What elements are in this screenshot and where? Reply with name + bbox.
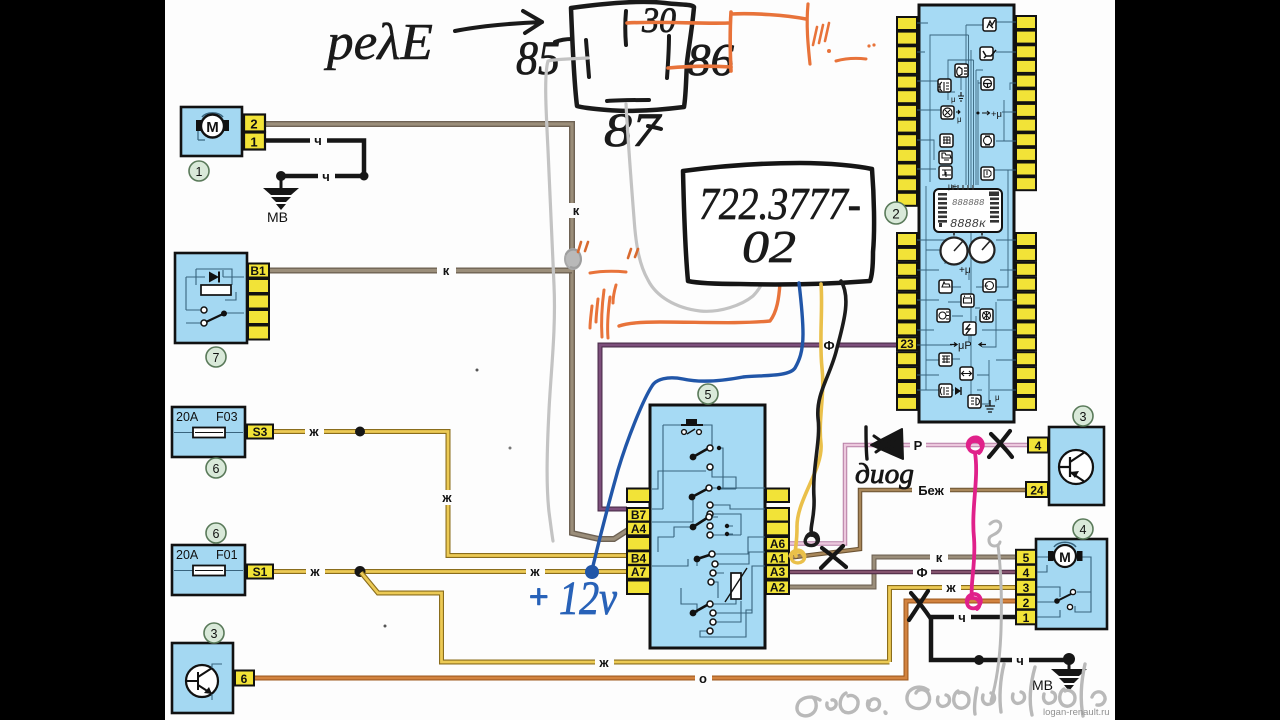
comp2 internal bus lines — [917, 22, 1016, 404]
comp5 contact group 4 — [697, 555, 711, 560]
svg-text:1: 1 — [196, 165, 203, 179]
junction dot on S3 wire — [355, 427, 365, 437]
svg-text:реλЕ: реλЕ — [323, 14, 433, 71]
svg-text:ж: ж — [308, 424, 319, 439]
comp2 muP arrows — [950, 343, 986, 347]
junction dot on S1 wire — [355, 566, 366, 577]
svg-text:Ф: Ф — [916, 565, 927, 580]
svg-text:S1: S1 — [253, 565, 268, 579]
svg-text:ж: ж — [945, 580, 956, 595]
svg-text:μ: μ — [951, 95, 956, 104]
svg-text:30: 30 — [641, 0, 676, 40]
svg-text:A6: A6 — [770, 537, 786, 551]
label circle 1 — [189, 161, 209, 181]
svg-text:F03: F03 — [216, 410, 238, 424]
svg-text:ч: ч — [322, 169, 330, 184]
svg-text:1: 1 — [1023, 611, 1030, 625]
label circle 7 — [206, 347, 226, 367]
component 3: transistor unit bottom left — [172, 643, 233, 713]
svg-text:μР: μР — [958, 340, 972, 352]
wire: yellow from F03 S3 to comp5 B4 — [273, 432, 627, 556]
svg-text:4: 4 — [1080, 523, 1087, 537]
component 7: relay unit connector — [175, 253, 247, 343]
hand orange quote ticks — [578, 242, 588, 252]
wire: purple violet wire comp5 B7 to comp2 pin 23 — [600, 345, 899, 509]
svg-text:24: 24 — [1030, 484, 1044, 498]
svg-text:86: 86 — [687, 34, 734, 85]
comp2 pins — [897, 17, 917, 30]
hand gray line from relay 85 — [546, 58, 588, 541]
label zh on bottom yellow run — [595, 655, 614, 670]
svg-text:6: 6 — [213, 527, 220, 541]
hand orange line to box — [619, 283, 780, 326]
component 3: transistor unit right — [1049, 427, 1104, 505]
hand pink knot bottom — [967, 594, 981, 609]
wire: brown K wire from comp1 pin 2 down to A4 of comp5 — [265, 124, 628, 539]
label o on orange wire — [695, 671, 712, 685]
label P on pink wire — [910, 438, 926, 453]
junction dot on comp4 ground wire — [974, 655, 984, 665]
label K on vertical brown — [567, 203, 584, 218]
pin 1 of component 1 — [244, 133, 265, 150]
label circle 3 (bottom left) — [204, 623, 224, 643]
svg-text:logan-renault.ru: logan-renault.ru — [1043, 707, 1110, 718]
wire: yellow from F01 S1 to comp5 A7 — [273, 569, 627, 574]
component 5: steering column switch unit — [650, 405, 765, 648]
wire: black ground wire from component 1 pin 1 — [265, 141, 364, 177]
hand black X near comp3r pin4 — [989, 431, 1012, 457]
wire: brown K wire from comp7 pin B1 joining vertical — [268, 268, 572, 274]
hand orange wire from 30 — [627, 12, 806, 71]
component 4: motor unit right — [1036, 539, 1107, 629]
hand black knot at A6 — [805, 533, 818, 546]
hand relay box — [571, 2, 694, 111]
comp4 pins 5,4,3,2,1 — [1016, 550, 1036, 565]
svg-text:ч: ч — [1016, 653, 1024, 668]
svg-text:к: к — [573, 203, 580, 218]
pins 2-5 of component 7 — [248, 279, 269, 293]
hand blue wire from box to +12v junction — [592, 283, 803, 570]
label K on B1 wire — [437, 263, 456, 278]
comp2 icons top — [983, 18, 996, 31]
svg-text:02: 02 — [742, 221, 796, 272]
label F on purple wire — [820, 338, 838, 353]
speck dots — [476, 369, 479, 372]
svg-text:3: 3 — [1080, 410, 1087, 424]
hand black X on lower corner area — [909, 591, 931, 620]
component 1: washer pump motor connector — [181, 107, 242, 156]
hand box 722.3777-02 — [683, 163, 874, 284]
component 6: fuse F01 — [172, 545, 245, 595]
svg-text:к: к — [443, 263, 450, 278]
comp2 icons bottom — [939, 353, 952, 366]
label ch on comp1 wire — [310, 133, 327, 147]
svg-text:20A: 20A — [176, 548, 199, 562]
svg-text:1: 1 — [250, 135, 257, 150]
svg-text:3: 3 — [211, 627, 218, 641]
label circle 4 — [1073, 519, 1093, 539]
label circle 2 — [885, 202, 907, 224]
pin 2 of component 1 — [244, 115, 265, 132]
comp5 contact group 3 — [693, 518, 707, 527]
hand pink wire vertical — [972, 453, 977, 597]
svg-text:A3: A3 — [770, 565, 786, 579]
relay pin 87 tick — [607, 100, 649, 101]
pin 6 of comp3 bottom left — [235, 671, 254, 686]
node: blue junction dot on A7 wire (+12v) — [585, 565, 599, 579]
label circle 5 — [698, 384, 718, 404]
ground MB (component 4) — [1051, 659, 1087, 691]
comp2 gauge ticks — [953, 185, 973, 190]
svg-text:F01: F01 — [216, 548, 238, 562]
hand yellow knot at A1 — [790, 550, 805, 563]
svg-text:6: 6 — [241, 672, 248, 686]
svg-text:Беж: Беж — [918, 483, 944, 498]
comp2 internal ground — [985, 400, 995, 412]
comp5 contact group 2 — [692, 489, 707, 497]
comp2 gauge 1 — [941, 238, 968, 265]
label F on A3 wire — [913, 565, 931, 580]
hand yellow wire from box to A1 — [795, 284, 822, 556]
label circle 3 right — [1073, 406, 1093, 426]
wire: orange from comp3 pin 6 to comp4 pin 2 — [253, 601, 1016, 678]
hand black diode symbol on P wire — [866, 427, 867, 459]
svg-text:ж: ж — [441, 490, 452, 505]
svg-text:+μ: +μ — [991, 109, 1002, 120]
label zh near comp4 pin3 — [942, 580, 961, 595]
comp2 icons middle — [939, 280, 952, 293]
wire: yellow branch from S1 junction to comp4 pin 3 — [361, 573, 1016, 663]
svg-text:5: 5 — [1023, 551, 1030, 565]
svg-text:2: 2 — [250, 117, 257, 132]
wire: beige wire comp5 A1 to comp3r pin 24 — [787, 490, 1028, 558]
svg-text:3: 3 — [1023, 581, 1030, 595]
SECTION:WIRES2 — [172, 107, 273, 713]
wire: brown K wire comp5 A2 to comp4 pin 5 — [787, 557, 1016, 587]
svg-text:μ+: μ+ — [948, 182, 958, 191]
label zh on S1 wire — [306, 564, 325, 579]
comp5 right pin block — [766, 489, 789, 595]
svg-text:ч: ч — [314, 133, 322, 148]
label ch on comp4 ground run — [1012, 653, 1029, 667]
pin B1 of component 7 — [248, 264, 269, 278]
comp2 gauge 2 — [970, 238, 995, 263]
pin 24 of comp3 right — [1026, 482, 1048, 497]
relay pin 30 tick — [623, 11, 628, 45]
hand orange battery marks top right — [807, 4, 810, 64]
svg-text:Р: Р — [914, 438, 923, 453]
hand black wire from box to A6 — [811, 281, 846, 535]
svg-text:МВ: МВ — [1032, 677, 1053, 693]
svg-text:о: о — [699, 671, 707, 686]
svg-text:M: M — [1059, 549, 1071, 565]
svg-text:6: 6 — [213, 462, 220, 476]
svg-text:87: 87 — [604, 104, 662, 157]
hand gray blob knot on brown wire — [565, 249, 581, 269]
svg-text:μ: μ — [957, 115, 962, 124]
svg-text:20A: 20A — [176, 410, 199, 424]
node: ground attach dot comp1 — [276, 171, 286, 181]
svg-text:7: 7 — [213, 351, 220, 365]
svg-text:A2: A2 — [770, 581, 786, 595]
svg-text:Ф: Ф — [823, 338, 834, 353]
left letterbox bar — [0, 0, 165, 720]
component 6: fuse F03 — [172, 407, 245, 457]
comp5 contact group 5 — [693, 605, 708, 614]
comp5 internal thin wiring — [652, 425, 765, 637]
svg-text:2: 2 — [1023, 596, 1030, 610]
label circle 6 (F01) — [206, 523, 226, 543]
svg-text:ж: ж — [309, 564, 320, 579]
SECTION:COMPEND — [323, 0, 1105, 716]
svg-text:B7: B7 — [631, 508, 647, 522]
label zh on S3 wire — [305, 424, 324, 439]
hand gray writing bottom — [797, 664, 1105, 716]
pin S1 — [247, 565, 273, 579]
relay pin 85 tick — [555, 39, 589, 77]
svg-text:диоg: диоg — [855, 459, 914, 490]
svg-text:888888: 888888 — [952, 198, 985, 208]
svg-text:2: 2 — [892, 207, 900, 222]
svg-text:A7: A7 — [631, 565, 647, 579]
svg-text:ж: ж — [598, 655, 609, 670]
svg-text:ж: ж — [529, 564, 540, 579]
pin S3 — [247, 425, 273, 439]
comp5 resistor — [731, 573, 741, 599]
hand orange scribble strokes — [590, 285, 616, 338]
comp5 contact group 1 — [693, 449, 708, 458]
comp5 left pin block — [627, 489, 650, 595]
hand orange wire from 86 — [668, 66, 731, 68]
comp4 internal wiring — [1036, 557, 1091, 617]
svg-text:M: M — [206, 119, 219, 136]
svg-text:4: 4 — [1035, 439, 1042, 453]
comp5 push button — [681, 424, 703, 426]
svg-text:23: 23 — [900, 337, 914, 351]
junction corner dot on black wire — [360, 172, 369, 181]
wire: pink P wire comp5 A6 to comp3r pin 4 — [787, 445, 1028, 544]
hand pink knot top — [968, 437, 983, 453]
svg-text:ч: ч — [958, 610, 966, 625]
ground MB (component 1) — [263, 176, 299, 210]
svg-text:4: 4 — [1023, 566, 1030, 580]
hand black X on A6 wire — [821, 546, 846, 568]
wire: black from comp4 pin 1 to ground — [931, 617, 1069, 660]
right letterbox bar — [1115, 0, 1280, 720]
label zh on vertical yellow — [438, 490, 457, 505]
svg-text:5: 5 — [705, 388, 712, 402]
pin 4 of comp3 right — [1028, 438, 1048, 453]
comp2 LCD display — [934, 189, 1002, 232]
svg-text:B4: B4 — [631, 551, 647, 565]
svg-text:μ: μ — [995, 393, 1000, 402]
label K on A2-pin5 wire — [930, 550, 948, 565]
svg-text:A4: A4 — [631, 522, 647, 536]
svg-text:S3: S3 — [253, 425, 268, 439]
svg-text:МВ: МВ — [267, 209, 288, 225]
label ch near comp4 pin1 — [954, 610, 971, 624]
svg-text:A1: A1 — [770, 551, 786, 565]
hand gray line from relay 87 — [626, 104, 763, 311]
svg-text:к: к — [936, 550, 943, 565]
svg-text:8888к: 8888к — [950, 217, 987, 231]
relay pin 86 tick — [667, 36, 669, 78]
wire: violet F wire comp5 A3 to comp4 pin 4 — [787, 570, 1016, 575]
hand gray knot right of comp2 — [989, 521, 1001, 546]
label circle 6 (F03) — [206, 458, 226, 478]
svg-text:+μ: +μ — [959, 265, 971, 276]
label Bezh on beige wire — [912, 483, 950, 498]
node: ground attach dot comp4 — [1063, 653, 1075, 665]
svg-text:+: + — [527, 579, 550, 616]
hand orange dash mid left — [590, 271, 626, 273]
svg-text:B1: B1 — [250, 264, 266, 278]
hand arrow to relay — [455, 11, 542, 33]
component 2: instrument cluster — [919, 5, 1014, 422]
svg-text:12v: 12v — [559, 572, 618, 625]
